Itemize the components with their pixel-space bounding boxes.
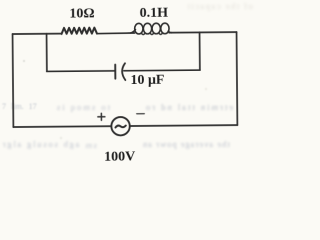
- wire capacitor branch left: [47, 70, 114, 73]
- bleed-through text bottom right: [142, 139, 230, 149]
- inductor L1 0.1H: [130, 23, 171, 35]
- AC source V1 circle: [111, 117, 130, 136]
- wire inner left vertical (node A): [46, 34, 48, 72]
- capacitor C1 right curved plate: [122, 63, 125, 80]
- wire between resistor and inductor: [97, 32, 135, 35]
- bleed-through text middle-left segment: [55, 102, 110, 112]
- resistor R1 10ohm: [62, 28, 97, 34]
- bleed-through text bottom middle segment: [84, 140, 97, 150]
- svg-text:100V: 100V: [104, 149, 135, 164]
- wire bottom right segment: [130, 124, 238, 127]
- wire inner right vertical (node B): [199, 32, 201, 70]
- paper speck: [23, 60, 26, 63]
- bleed-through text top right: [186, 1, 253, 11]
- bleed-through text right middle: [144, 102, 233, 112]
- bleed-through text page number: [2, 102, 37, 111]
- wire top right segment: [169, 31, 236, 34]
- wire top left segment: [13, 33, 62, 35]
- svg-text:10 μF: 10 μF: [130, 73, 164, 88]
- AC source V1 sine wave: [115, 126, 125, 128]
- capacitor C1 left plate: [114, 65, 116, 79]
- wire right vertical: [236, 32, 239, 125]
- wire capacitor branch right: [124, 69, 200, 72]
- paper speck 3: [60, 137, 62, 139]
- wire left vertical: [12, 34, 15, 127]
- bleed-through text bottom left: [1, 139, 79, 149]
- minus polarity mark: [137, 113, 144, 115]
- svg-text:0.1H: 0.1H: [140, 5, 169, 20]
- plus polarity mark: [98, 113, 105, 120]
- paper speck 2: [205, 88, 207, 90]
- wire bottom left segment: [13, 125, 111, 128]
- svg-text:10Ω: 10Ω: [69, 7, 94, 22]
